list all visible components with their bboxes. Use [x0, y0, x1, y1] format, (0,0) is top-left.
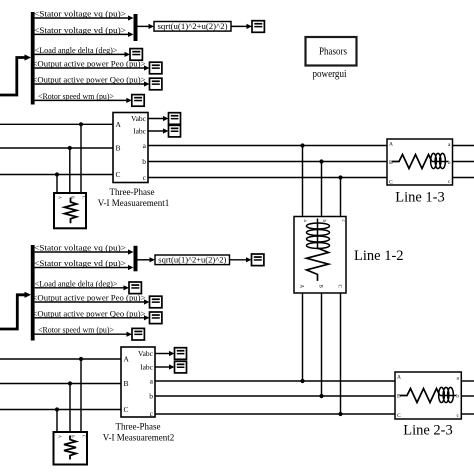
svg-text:sqrt(u(1)^2+u(2)^2): sqrt(u(1)^2+u(2)^2) [158, 22, 228, 31]
wire: Output active power Peo to scope [35, 65, 150, 70]
svg-text:C: C [124, 405, 129, 414]
wire: load2 drop A [80, 359, 82, 432]
svg-text:Vabc: Vabc [131, 114, 147, 123]
svg-text:Phasors: Phasors [319, 47, 347, 58]
svg-text:C: C [82, 196, 87, 199]
svg-text:B: B [71, 435, 76, 438]
svg-text:B: B [397, 394, 401, 400]
wire: bus1 phase C input [0, 174, 113, 176]
wire: Stator voltage vq to mux1 [35, 15, 134, 20]
wire: Line 1-2 bottom A [302, 293, 304, 381]
wire: Output active power Qeo 2 to scope [35, 315, 150, 320]
wire: Stator voltage vq to mux2 [35, 249, 134, 254]
svg-text:<Stator voltage vd (pu)>: <Stator voltage vd (pu)> [34, 258, 126, 268]
label: Three-Phase V-I Measuarement1 [98, 187, 169, 208]
scope: Vt terminal voltage 2 [252, 254, 264, 266]
svg-text:Line 1-3: Line 1-3 [395, 190, 445, 206]
block: three-phase RLC load 1 [54, 193, 87, 228]
wire: Output active power Peo 2 to scope [35, 299, 150, 304]
wire: Stator voltage vd to mux2 [35, 265, 134, 270]
svg-text:A: A [124, 355, 130, 364]
node: load2 tap phase A [79, 357, 83, 361]
scope: Iabc 1 [169, 125, 181, 137]
svg-text:Three-Phase: Three-Phase [116, 422, 161, 432]
svg-text:<Stator voltage vq (pu)>: <Stator voltage vq (pu)> [34, 243, 126, 253]
svg-text:b: b [142, 157, 146, 166]
scope: Vabc 1 [169, 113, 181, 125]
wire: load1 drop C [56, 175, 58, 194]
wire: load2 drop C [56, 410, 58, 433]
wire: Line 1-2 top a [302, 146, 304, 217]
svg-text:V-I Measuarement2: V-I Measuarement2 [103, 432, 174, 442]
svg-text:B: B [116, 144, 121, 153]
node: load1 tap phase A [79, 122, 83, 126]
wire: Rotor speed wm to scope [35, 98, 132, 103]
svg-text:powergui: powergui [313, 68, 347, 80]
scope: active power Peo 1 [150, 62, 162, 74]
wire: Line 1-2 bottom C [340, 293, 342, 414]
svg-text:C: C [116, 170, 121, 179]
wire: bus3 lower a out [461, 380, 474, 382]
wire: Iabc1 to scope [148, 128, 169, 133]
powergui block (Phasors) [306, 37, 357, 66]
svg-text:<Load angle delta (deg)>: <Load angle delta (deg)> [35, 278, 118, 288]
wire: thick feed into demux bar 2 [0, 292, 31, 329]
node: load2 tap phase B [68, 381, 72, 385]
wire: Vabc2 to scope [155, 351, 175, 356]
wire: bus1 phase B input [0, 147, 113, 149]
svg-text:A: A [299, 285, 304, 289]
scope: load angle delta 1 [130, 49, 142, 61]
wire: Line 1-2 bottom B [321, 293, 323, 396]
node: load2 tap phase C [55, 407, 59, 411]
scope: active power Peo 2 [150, 296, 162, 308]
wire: load2 drop B [69, 384, 71, 433]
svg-text:<Output active power Peo (pu)>: <Output active power Peo (pu)> [33, 59, 146, 69]
wire: Rotor speed wm 2 to scope [35, 332, 132, 337]
wire: Line 1-2 top b [321, 162, 323, 217]
wire: Load angle delta 2 to scope [35, 285, 129, 290]
svg-text:C: C [389, 180, 393, 186]
wire: bus2 phase C input [0, 409, 121, 411]
wire: Line 1-2 top c [340, 178, 342, 217]
scope: Vt terminal voltage 1 [252, 21, 264, 33]
demux bus selector bar 1 [31, 12, 35, 105]
wire: bus3 lower b out [461, 395, 474, 397]
svg-text:<Output active power Qeo (pu)>: <Output active power Qeo (pu)> [33, 75, 146, 85]
block: Line 2-3 [395, 372, 461, 419]
node: bus1 b to Line 1-2 [319, 159, 323, 163]
wire: thick feed into demux bar 1 [0, 54, 31, 95]
scope: Vabc 2 [175, 348, 187, 360]
wire: Output active power Qeo to scope [35, 81, 150, 86]
wire: bus2 phase B input [0, 383, 121, 385]
scope: rotor speed wm 1 [132, 95, 144, 107]
wire: bus1 phase a [148, 145, 387, 147]
svg-text:b: b [448, 160, 451, 166]
svg-text:b: b [149, 392, 153, 401]
wire: sqrt1 to scope [231, 24, 252, 29]
svg-text:Line 1-2: Line 1-2 [354, 248, 404, 264]
wire: bus1 phase b [148, 161, 387, 163]
scope: rotor speed wm 2 [132, 328, 144, 340]
svg-text:<Output active power Qeo (pu)>: <Output active power Qeo (pu)> [33, 308, 146, 318]
scope: load angle delta 2 [129, 282, 141, 294]
svg-text:A: A [58, 196, 63, 199]
wire: bus1 phase A input [0, 123, 113, 125]
svg-text:<Rotor speed wm (pu)>: <Rotor speed wm (pu)> [38, 325, 114, 335]
svg-text:A: A [397, 375, 401, 381]
node: bus1 a to Line 1-2 [300, 143, 304, 147]
mux bar 2 [134, 246, 138, 271]
wire: sqrt2 to scope [230, 257, 252, 262]
wire: Vabc1 to scope [148, 116, 169, 121]
svg-text:Iabc: Iabc [133, 127, 147, 136]
node: bus1 c to Line 1-2 [338, 175, 342, 179]
svg-text:C: C [82, 435, 87, 438]
wire: bus2 phase A input [0, 358, 121, 360]
scope: reactive power Qeo 1 [150, 78, 162, 90]
svg-text:<Load angle delta (deg)>: <Load angle delta (deg)> [35, 45, 118, 55]
svg-text:sqrt(u(1)^2+u(2)^2): sqrt(u(1)^2+u(2)^2) [158, 256, 226, 265]
wire: load1 drop B [69, 148, 71, 193]
node: bus2 c junction [338, 412, 342, 416]
node: load1 tap phase C [55, 172, 59, 176]
demux bus selector bar 2 [31, 245, 35, 341]
block: Line 1-3 [387, 139, 453, 186]
node: bus2 b junction [319, 394, 323, 398]
scope: Iabc 2 [175, 361, 187, 373]
svg-text:B: B [124, 379, 129, 388]
svg-text:<Stator voltage vq (pu)>: <Stator voltage vq (pu)> [34, 9, 126, 19]
Fcn block sqrt1 [154, 22, 231, 32]
svg-text:<Stator voltage vd (pu)>: <Stator voltage vd (pu)> [34, 25, 126, 35]
wire: bus1 phase c [148, 177, 387, 179]
wire: bus3 phase b out [453, 161, 474, 163]
svg-text:V-I Measuarement1: V-I Measuarement1 [98, 198, 169, 208]
wire: bus3 phase c out [453, 177, 474, 179]
svg-text:Iabc: Iabc [140, 363, 154, 372]
svg-text:A: A [389, 142, 393, 148]
svg-text:C: C [397, 413, 401, 419]
svg-text:Line 2-3: Line 2-3 [403, 423, 453, 439]
wire: bus2 phase a [155, 380, 395, 382]
block: Three-Phase V-I Measurement2 [121, 347, 155, 418]
wire: Load angle delta to scope [35, 52, 130, 57]
svg-text:<Rotor speed wm (pu)>: <Rotor speed wm (pu)> [38, 91, 114, 101]
svg-text:A: A [58, 435, 63, 438]
svg-text:Vabc: Vabc [138, 349, 154, 358]
svg-text:b: b [456, 394, 459, 400]
wire: bus3 phase a out [453, 145, 474, 147]
svg-text:A: A [116, 120, 122, 129]
wire: Stator voltage vd to mux1 [35, 32, 134, 37]
wire: bus2 phase c [155, 413, 395, 415]
scope: reactive power Qeo 2 [150, 312, 162, 324]
wire: bus2 phase b [155, 395, 395, 397]
label: Three-Phase V-I Measuarement2 [103, 422, 174, 443]
wire: load1 drop A [80, 124, 82, 193]
wire: Iabc2 to scope [155, 364, 175, 369]
Fcn block sqrt2 [155, 255, 230, 265]
node: load1 tap phase B [68, 146, 72, 150]
block: Line 1-2 [294, 217, 346, 294]
block: three-phase RLC load 2 [54, 432, 88, 465]
node: bus2 a junction [300, 379, 304, 383]
wire: mux1 to Fcn sqrt1 [138, 24, 155, 29]
block: Three-Phase V-I Measurement1 [113, 113, 148, 183]
svg-text:Three-Phase: Three-Phase [110, 187, 155, 197]
wire: mux2 to Fcn sqrt2 [138, 257, 156, 262]
wire: bus3 lower c out [461, 413, 474, 415]
mux bar 1 [134, 14, 138, 41]
